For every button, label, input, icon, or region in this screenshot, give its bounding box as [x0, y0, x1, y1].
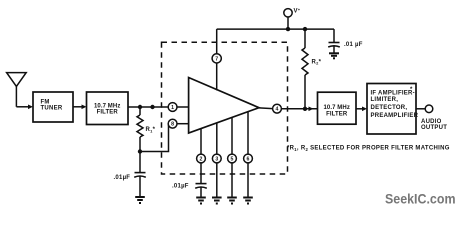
svg-text:R1*: R1* [146, 127, 156, 133]
svg-text:2: 2 [200, 156, 203, 162]
10.7 MHz filter (output) [318, 92, 357, 124]
svg-text:10.7 MHz: 10.7 MHz [323, 105, 349, 111]
svg-text:6: 6 [247, 156, 250, 162]
resistor R1 [137, 107, 156, 152]
ground (pin 2) [196, 198, 206, 204]
pin 2 [197, 128, 206, 163]
svg-text:TUNER: TUNER [41, 106, 63, 112]
IF amplifier-limiter, detector, preamplifier block [367, 84, 419, 135]
svg-text:1: 1 [171, 105, 174, 111]
svg-text:*R1, R2 SELECTED FOR PROPER FI: *R1, R2 SELECTED FOR PROPER FILTER MATCH… [287, 146, 450, 152]
wire pin 4 to output filter [281, 107, 317, 112]
svg-text:8: 8 [171, 122, 174, 128]
svg-text:R2*: R2* [312, 59, 322, 65]
wire pin 3 to ground [216, 163, 218, 197]
svg-text:.01µF: .01µF [114, 175, 131, 181]
10.7 MHz filter (input) [87, 92, 129, 125]
ground (pin 3) [212, 198, 222, 204]
capacitor .01uF (pin 2) [172, 163, 207, 197]
pin 7 [212, 29, 221, 90]
svg-text:DETECTOR,: DETECTOR, [371, 105, 408, 111]
V+ supply rail [217, 28, 334, 30]
op-amp U1 triangle [189, 78, 259, 134]
wire junction to pin 8 [140, 125, 169, 152]
node R2 top junction [303, 27, 307, 31]
pin 8 [168, 119, 188, 128]
svg-text:IF AMPLIFIER-: IF AMPLIFIER- [371, 90, 415, 96]
svg-text:FILTER: FILTER [97, 110, 119, 116]
node R1 bottom junction [138, 149, 142, 153]
V+ terminal [284, 7, 301, 29]
svg-text:LIMITER,: LIMITER, [371, 97, 399, 103]
pin 5 [228, 117, 237, 163]
wire filter to IF amplifier [356, 107, 367, 112]
svg-text:SeekIC.com: SeekIC.com [385, 192, 456, 208]
audio output terminal [421, 105, 447, 131]
pin 4 [259, 104, 281, 113]
ground (pin 5) [227, 198, 237, 204]
capacitor .01uF (supply) [328, 29, 363, 53]
svg-text:.01µF: .01µF [172, 184, 189, 190]
pin 3 [212, 123, 221, 163]
svg-text:PREAMPLIFIER: PREAMPLIFIER [371, 113, 419, 119]
node V+ rail junction [286, 27, 290, 31]
wire pin 5 to ground [231, 163, 233, 197]
ground (supply cap) [329, 53, 339, 58]
svg-text:OUTPUT: OUTPUT [421, 125, 447, 131]
svg-text:3: 3 [215, 156, 218, 162]
svg-text:*: * [410, 87, 413, 93]
ground (left cap) [135, 197, 145, 203]
wire tuner to filter [73, 105, 87, 110]
antenna [7, 73, 27, 107]
svg-text:FILTER: FILTER [326, 111, 348, 117]
svg-text:4: 4 [276, 107, 279, 113]
ground (pin 6) [243, 198, 253, 204]
capacitor .01uF (left) [114, 152, 146, 197]
wire antenna to tuner [16, 105, 33, 110]
svg-text:.01 µF: .01 µF [344, 42, 363, 48]
wire IF amplifier to audio output [416, 108, 425, 110]
wire filter to pin 1 [128, 105, 168, 109]
dashed IC package box [162, 42, 288, 174]
wire pin 6 to ground [247, 163, 249, 197]
resistor R2 [302, 29, 322, 109]
FM tuner box [33, 92, 73, 122]
svg-text:FM: FM [41, 99, 50, 105]
svg-text:7: 7 [215, 56, 218, 62]
svg-text:5: 5 [231, 156, 234, 162]
pin 1 [168, 103, 188, 112]
pin 6 [244, 112, 253, 163]
